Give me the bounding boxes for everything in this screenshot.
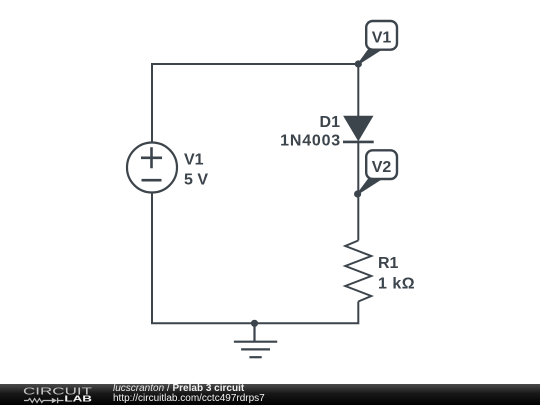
svg-text:D1: D1 [320,114,341,131]
svg-text:LAB: LAB [64,395,92,404]
wire bottom run: source bottom to ground to resistor bottom [152,192,358,323]
junction dot top node [355,60,362,67]
wire top run: diode top to node V1 to source top [152,64,358,143]
voltage source V1 [127,143,177,193]
svg-text:1 kΩ: 1 kΩ [378,275,415,292]
svg-text:V1: V1 [184,152,204,169]
ground [234,323,277,357]
node flag V2 [358,150,397,194]
CircuitLab logo [0,384,110,405]
svg-text:V1: V1 [372,30,392,47]
svg-text:R1: R1 [378,255,399,272]
svg-text:V2: V2 [372,159,392,176]
label V1 5 V [184,152,208,189]
diode D1 [343,116,374,142]
node flag V1 [358,21,397,64]
junction dot ground node [251,320,258,327]
svg-text:5 V: 5 V [184,172,208,189]
svg-text:1N4003: 1N4003 [280,133,341,150]
wire diode to resistor [357,142,359,241]
resistor R1 [345,241,371,302]
junction dot V2 node [354,190,361,197]
url line [113,394,265,404]
label R1 1 kOhm [378,255,415,292]
label D1 1N4003 [280,114,341,150]
footer bar [0,384,540,405]
credit line [113,384,244,394]
